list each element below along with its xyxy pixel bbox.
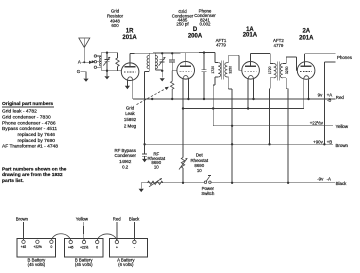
svg-text:0: 0: [51, 245, 53, 249]
svg-text:replaced by 7690: replaced by 7690: [18, 138, 56, 144]
svg-text:drawing are from the 1932: drawing are from the 1932: [2, 172, 63, 178]
svg-text:Brown: Brown: [336, 143, 349, 148]
svg-text:3250: 3250: [285, 66, 289, 74]
svg-text:Condenser: Condenser: [114, 153, 136, 158]
svg-text:+22½v: +22½v: [310, 121, 324, 126]
svg-text:AF Transformer #1 - 4748: AF Transformer #1 - 4748: [2, 143, 58, 149]
svg-text:Black: Black: [336, 181, 348, 186]
svg-text:+45: +45: [68, 245, 74, 249]
svg-text:(45 volts): (45 volts): [75, 262, 93, 267]
svg-text:Brown: Brown: [16, 216, 29, 221]
svg-text:+90v: +90v: [313, 140, 323, 145]
svg-text:D: D: [193, 27, 198, 33]
svg-text:Phones: Phones: [337, 55, 353, 60]
svg-text:2 Meg: 2 Meg: [124, 123, 137, 128]
svg-text:replaced by 7646: replaced by 7646: [18, 132, 56, 138]
svg-text:Det: Det: [196, 153, 204, 158]
svg-text:15892: 15892: [124, 117, 137, 122]
svg-text:+: +: [116, 245, 118, 249]
svg-text:+B: +B: [327, 140, 333, 145]
svg-text:Red: Red: [336, 95, 345, 100]
svg-text:A: A: [78, 59, 81, 64]
svg-text:0.2: 0.2: [122, 164, 129, 169]
svg-text:Bypass condenser - 4511: Bypass condenser - 4511: [2, 126, 57, 132]
svg-text:G: G: [77, 69, 81, 74]
svg-text:201A: 201A: [243, 32, 258, 38]
svg-text:Grid leak - 4782: Grid leak - 4782: [2, 109, 37, 115]
svg-text:600: 600: [111, 23, 119, 28]
svg-text:Red: Red: [113, 217, 121, 222]
svg-text:Part numbers shown on the: Part numbers shown on the: [2, 166, 67, 172]
svg-text:-9v: -9v: [317, 177, 324, 182]
svg-text:-B: -B: [327, 98, 331, 103]
svg-text:1720: 1720: [211, 66, 215, 74]
svg-text:Phone condenser - 4786: Phone condenser - 4786: [2, 120, 56, 126]
svg-text:2A: 2A: [302, 29, 310, 35]
svg-text:0: 0: [96, 245, 98, 249]
svg-text:Yellow: Yellow: [76, 216, 89, 221]
svg-text:(6 volts): (6 volts): [118, 262, 134, 267]
svg-text:10: 10: [154, 165, 159, 170]
svg-text:+22½: +22½: [80, 245, 88, 249]
svg-text:9v: 9v: [318, 93, 323, 98]
svg-text:14962: 14962: [119, 159, 132, 164]
svg-text:3250: 3250: [229, 66, 233, 74]
svg-text:(45 volts): (45 volts): [28, 262, 46, 267]
svg-text:1R: 1R: [126, 28, 134, 34]
svg-text:-A: -A: [327, 177, 331, 182]
svg-text:Black: Black: [129, 217, 140, 222]
svg-text:1720: 1720: [268, 66, 272, 74]
svg-text:-: -: [134, 245, 135, 249]
svg-text:201A: 201A: [122, 35, 137, 41]
svg-text:201A: 201A: [299, 35, 314, 41]
svg-text:Grid: Grid: [126, 106, 135, 111]
svg-text:+22½: +22½: [34, 245, 42, 249]
svg-text:Yellow: Yellow: [336, 124, 349, 129]
svg-text:250 pf: 250 pf: [176, 22, 189, 27]
svg-text:Leak: Leak: [125, 111, 135, 116]
svg-text:+45: +45: [21, 245, 27, 249]
svg-text:4779: 4779: [216, 43, 226, 48]
svg-text:Original part numbers: Original part numbers: [2, 101, 53, 107]
svg-text:Grid condenser - 7830: Grid condenser - 7830: [2, 115, 51, 121]
svg-text:10: 10: [197, 168, 202, 173]
svg-text:0.002: 0.002: [200, 22, 212, 27]
svg-text:Switch: Switch: [201, 191, 214, 196]
svg-text:parts list.: parts list.: [2, 178, 24, 184]
svg-text:200A: 200A: [188, 33, 203, 39]
svg-text:4779: 4779: [274, 43, 284, 48]
